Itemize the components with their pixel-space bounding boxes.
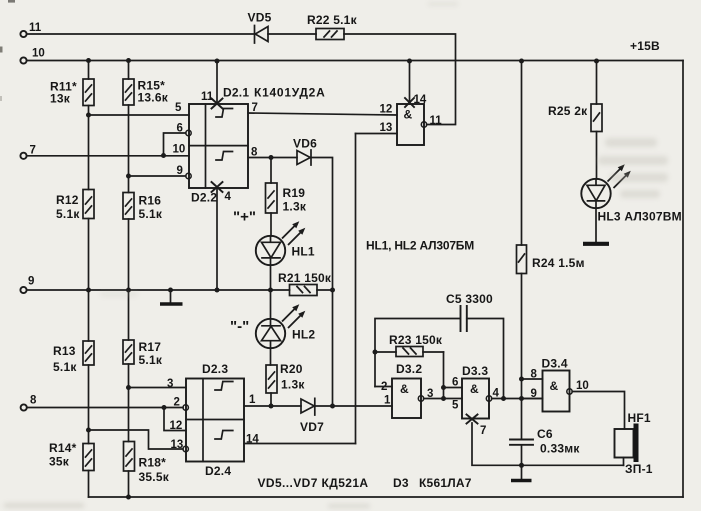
svg-text:5: 5 — [175, 102, 182, 114]
svg-text:+15В: +15В — [630, 39, 660, 53]
wire R12 bottom to rail 9 — [88, 219, 90, 291]
svg-text:5.1к: 5.1к — [139, 353, 163, 367]
pin 13 wire — [356, 122, 398, 134]
svg-text:HL1: HL1 — [292, 245, 315, 259]
wire R15 top lead — [128, 61, 130, 80]
node R13/R14 tap — [86, 428, 91, 433]
node pin6/pin10 tee — [161, 153, 166, 158]
resistor R19 1.3k — [266, 183, 307, 214]
resistor R24 1.5M — [517, 245, 585, 274]
gate D3.4 — [542, 357, 573, 412]
svg-text:R18*: R18* — [139, 456, 167, 470]
svg-text:8: 8 — [30, 395, 37, 407]
wire pin 7 to ground rail — [472, 423, 624, 465]
wire to op-amp pin 5 — [89, 114, 190, 116]
node pin 6 — [441, 385, 446, 390]
node C5 right — [501, 396, 506, 401]
svg-text:5.1к: 5.1к — [56, 207, 80, 221]
svg-text:R25 2к: R25 2к — [548, 104, 588, 118]
svg-text:11: 11 — [29, 22, 42, 34]
op-amp U block D2.1/D2.2 К1401УД2А — [189, 86, 326, 205]
resistor R18 35.5k — [124, 442, 170, 485]
wire +15V rail — [27, 60, 683, 62]
svg-text:ЗП-1: ЗП-1 — [625, 462, 653, 476]
pin 14 power cross of D3.1 — [405, 59, 427, 108]
svg-text:13: 13 — [380, 122, 393, 134]
svg-text:1: 1 — [384, 395, 391, 407]
wire terminal 8 to pin 2 — [27, 407, 183, 409]
svg-text:7: 7 — [252, 102, 258, 114]
node pin3 junction — [126, 385, 131, 390]
wire out4 to D3.4 — [492, 398, 543, 400]
wire rail9 to R17 — [128, 290, 130, 340]
node R24 top — [519, 59, 524, 64]
LED HL2 — [256, 304, 316, 348]
node rail9 ground — [168, 288, 173, 293]
svg-text:12: 12 — [380, 104, 393, 116]
wire C6 bottom — [521, 446, 523, 466]
node R18 bottom rail — [126, 495, 131, 500]
svg-text:&: & — [404, 108, 413, 122]
ground under HL3 — [583, 242, 609, 246]
svg-text:13.6к: 13.6к — [138, 91, 169, 105]
wire R17 bottom to R18 — [128, 364, 130, 442]
svg-text:HL1, HL2 АЛ307БМ: HL1, HL2 АЛ307БМ — [366, 239, 474, 253]
wire R15 bottom to R16 — [128, 105, 130, 193]
resistor R20 1.3k — [266, 362, 305, 393]
wire HL2 to R20 — [270, 348, 272, 365]
svg-text:R20: R20 — [280, 362, 303, 376]
resistor R13 5.1k — [53, 341, 94, 374]
terminal 10 — [20, 48, 44, 64]
svg-text:&: & — [400, 382, 409, 396]
pin 11 power cross — [201, 59, 223, 109]
pin 6 of D2.1 with bubble — [164, 123, 192, 156]
pin 9 of D2.2 with bubble — [129, 165, 192, 179]
resistor R22 5.1k — [307, 13, 358, 40]
svg-text:"+": "+" — [233, 209, 256, 226]
wire rail 9 — [27, 289, 290, 291]
pin 13 bubble and wire from R13/R14 tap — [89, 430, 189, 452]
gate D3.1 — [397, 104, 442, 145]
node R21 right — [330, 288, 335, 293]
pin 2 bubble — [174, 397, 189, 411]
svg-text:R22 5.1к: R22 5.1к — [307, 13, 358, 27]
svg-text:D2.1: D2.1 — [223, 86, 249, 100]
wire bottom rail — [89, 496, 684, 498]
svg-text:1: 1 — [249, 394, 256, 406]
pin 7 output wire to D3.1 pin 12 — [248, 102, 397, 115]
resistor R15 13.6k — [123, 79, 169, 106]
wire speaker bottom to ground rail — [623, 458, 625, 466]
wire C5 left with pin2 drop — [375, 319, 460, 387]
svg-text:"-": "-" — [230, 318, 249, 335]
pin 4 power cross — [212, 182, 232, 293]
diode VD6 — [293, 137, 317, 166]
resistor R17 5.1k — [123, 340, 163, 367]
wire R14 bottom — [88, 471, 90, 498]
pin 2 wire label — [375, 381, 392, 393]
pin 10 output wire to speaker — [572, 380, 624, 429]
wire VD7 to D3.2 pin 1 — [315, 405, 392, 407]
svg-text:VD6: VD6 — [293, 137, 317, 151]
resistor R12 5.1k — [56, 190, 94, 222]
wire R25 to HL3 — [596, 132, 598, 180]
node VD7 out — [330, 404, 335, 409]
pin 1 output wire — [244, 394, 301, 406]
svg-text:D3.3: D3.3 — [462, 364, 488, 378]
wire VD6 to vertical net — [311, 158, 333, 407]
svg-text:7: 7 — [480, 425, 486, 437]
wire R23 right drop to pins 6/5 — [443, 352, 445, 399]
svg-text:К561ЛА7: К561ЛА7 — [419, 476, 472, 490]
svg-text:HF1: HF1 — [628, 411, 651, 425]
svg-text:35.5к: 35.5к — [139, 470, 170, 484]
terminal 8 — [21, 395, 37, 411]
node R11 top — [86, 58, 91, 63]
wire HL2 top — [270, 290, 272, 319]
wire R11 bottom to R12 — [88, 106, 90, 190]
svg-text:9: 9 — [28, 276, 34, 288]
resistor R16 5.1k — [123, 193, 163, 222]
wire net 11 to VD5 — [27, 33, 254, 35]
pin 3 output wire — [424, 388, 462, 400]
svg-text:D2.4: D2.4 — [205, 464, 231, 478]
diode VD5 — [248, 11, 272, 44]
svg-text:10: 10 — [32, 48, 45, 60]
gate D3.3 — [462, 364, 500, 419]
svg-text:14: 14 — [414, 94, 427, 106]
wire R18 bottom — [128, 471, 130, 497]
svg-text:R24 1.5м: R24 1.5м — [532, 256, 585, 270]
speaker HF1 — [615, 411, 653, 476]
svg-text:D3: D3 — [393, 476, 409, 490]
resistor R14 35k — [49, 441, 94, 471]
ground under C6 — [511, 465, 532, 480]
svg-text:D3.4: D3.4 — [542, 357, 568, 371]
node rail9 R12 — [86, 288, 91, 293]
svg-text:D2.3: D2.3 — [202, 362, 228, 376]
wire R11 top lead — [88, 61, 90, 80]
wire terminal 7 to pin 10 — [27, 155, 189, 157]
node ground rail — [519, 463, 524, 468]
svg-text:13к: 13к — [50, 92, 71, 106]
pin 8 wire — [522, 369, 543, 381]
svg-text:R17: R17 — [139, 340, 162, 354]
wire R21 right — [317, 289, 333, 291]
svg-text:1.3к: 1.3к — [283, 200, 307, 214]
svg-text:R21 150к: R21 150к — [278, 271, 332, 285]
svg-text:10: 10 — [576, 380, 589, 392]
svg-text:R14*: R14* — [49, 441, 77, 455]
op-amp U block D2.3/D2.4 — [186, 362, 244, 478]
ground on rail 9 — [160, 290, 183, 304]
svg-text:D3.2: D3.2 — [396, 362, 422, 376]
pin 9 wire — [522, 388, 543, 400]
svg-text:11: 11 — [430, 115, 443, 127]
node rail9 HL1/HL2 — [268, 288, 273, 293]
svg-text:К1401УД2А: К1401УД2А — [254, 86, 326, 100]
node R20 bottom — [269, 404, 274, 409]
node R15 top — [126, 58, 131, 63]
svg-text:5.1к: 5.1к — [139, 207, 163, 221]
pin 8 output wire — [248, 147, 297, 161]
wire D2.4 pin14 to D3.1 pin13 vertical net — [355, 134, 357, 444]
svg-text:1.3к: 1.3к — [281, 378, 305, 392]
svg-text:&: & — [470, 382, 479, 396]
scan smudges — [0, 0, 15, 101]
resistor R11 13k — [50, 79, 94, 106]
node rail9 R16 — [126, 288, 131, 293]
svg-text:5.1к: 5.1к — [53, 360, 77, 374]
node pin9 junction — [126, 174, 131, 179]
svg-text:4: 4 — [225, 191, 232, 203]
svg-text:R19: R19 — [283, 186, 306, 200]
diode VD7 — [300, 398, 324, 434]
node pin12 tee — [162, 405, 167, 410]
svg-text:R13: R13 — [53, 344, 76, 358]
gate D3.2 — [392, 362, 424, 418]
svg-text:HL3 АЛ307ВМ: HL3 АЛ307ВМ — [598, 210, 682, 224]
svg-text:11: 11 — [201, 91, 214, 103]
wire HL3 to ground — [595, 208, 597, 242]
wire R24 bottom to node — [521, 274, 523, 439]
wire right border down — [682, 61, 684, 498]
svg-text:10: 10 — [173, 144, 186, 156]
wire R20 to pin1 net — [270, 393, 272, 406]
resistor R21 150k — [278, 271, 332, 296]
resistor R25 2k — [548, 104, 602, 132]
capacitor C6 0.33uF — [510, 427, 580, 456]
terminal 7 — [20, 145, 36, 159]
wire rail9 to R13 — [88, 290, 90, 341]
pin 7 power cross of D3.3 — [467, 415, 487, 438]
node pin 8 tee — [519, 377, 524, 382]
svg-text:35к: 35к — [49, 455, 70, 469]
wire R16 bottom to rail 9 — [128, 219, 130, 290]
wire R19 top lead — [270, 158, 272, 184]
svg-text:HL2: HL2 — [292, 328, 315, 342]
node main to C6 — [519, 396, 524, 401]
svg-text:C5 3300: C5 3300 — [446, 292, 493, 306]
resistor R23 150k — [375, 333, 444, 357]
wire R13 bottom to R14 — [88, 365, 90, 444]
node R23 left — [373, 350, 378, 355]
svg-text:R23 150к: R23 150к — [389, 333, 443, 347]
svg-text:7: 7 — [30, 145, 36, 157]
svg-text:VD5...VD7 КД521А: VD5...VD7 КД521А — [258, 476, 369, 490]
svg-text:R12: R12 — [56, 193, 79, 207]
svg-text:VD5: VD5 — [248, 11, 272, 25]
wire to pin 12 — [164, 408, 186, 433]
wire R25 branch — [596, 61, 598, 104]
wire VD5 to R22 — [268, 33, 316, 35]
wire pin 6 — [444, 377, 463, 389]
LED HL3 АЛ307ВМ — [581, 164, 682, 223]
svg-text:D2.2: D2.2 — [191, 191, 217, 205]
terminal 9 — [20, 276, 34, 294]
wire R22 to gate D3.1 output pin 11 — [344, 34, 456, 125]
node pin5 junction — [86, 113, 91, 118]
wire HL1 to rail 9 — [270, 265, 272, 290]
pin 3 wire — [129, 378, 187, 390]
pin 14 output wire — [244, 434, 356, 446]
svg-text:C6: C6 — [537, 427, 553, 441]
wire C5 right to output node — [467, 319, 504, 399]
svg-text:VD7: VD7 — [300, 420, 324, 434]
LED HL1 — [256, 221, 315, 265]
svg-text:0.33мк: 0.33мк — [540, 442, 580, 456]
svg-text:&: & — [550, 379, 559, 393]
terminal 11 — [20, 22, 41, 37]
node pin 5 / out 3 — [441, 396, 446, 401]
wire R19 to HL1 — [270, 213, 272, 236]
svg-text:R16: R16 — [139, 194, 162, 208]
svg-text:5: 5 — [452, 400, 459, 412]
node R25 top — [594, 59, 599, 64]
capacitor C5 3300 — [446, 292, 493, 331]
wire R24 branch from +15V — [521, 61, 523, 245]
